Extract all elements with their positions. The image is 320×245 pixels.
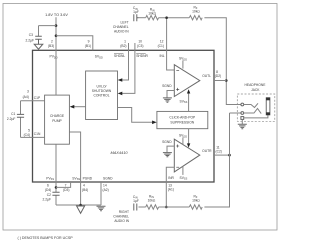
svg-text:(D4): (D4) bbox=[45, 188, 51, 192]
op-amp A1 left channel bbox=[174, 65, 200, 97]
svg-text:MAX4410: MAX4410 bbox=[110, 150, 128, 155]
ground triangle C3 bbox=[34, 44, 43, 49]
svg-text:C1N: C1N bbox=[34, 132, 41, 136]
svg-text:SUPPRESSION: SUPPRESSION bbox=[170, 121, 194, 125]
capacitor C1 2.2uF flying bbox=[20, 101, 22, 138]
svg-text:(B3): (B3) bbox=[48, 44, 54, 48]
click-and-pop suppression block bbox=[157, 111, 208, 128]
svg-text:RIGHT: RIGHT bbox=[119, 210, 129, 214]
wire bbox=[139, 206, 146, 208]
svg-text:JACK: JACK bbox=[251, 88, 260, 92]
svg-text:PUMP: PUMP bbox=[52, 119, 62, 123]
svg-text:(B2): (B2) bbox=[120, 44, 126, 48]
svg-text:SGND: SGND bbox=[162, 84, 172, 88]
capacitor C2 2.2uF bbox=[52, 192, 59, 195]
svg-text:CHANNEL: CHANNEL bbox=[113, 25, 129, 29]
svg-text:CHANNEL: CHANNEL bbox=[113, 215, 129, 219]
svg-text:HEADPHONE: HEADPHONE bbox=[245, 83, 267, 87]
wire clickpop to op-amp2 with arrow bbox=[188, 129, 190, 145]
wire OUTL pin 8 bbox=[214, 80, 226, 82]
wire SHDNL into UVLO bbox=[122, 50, 129, 80]
wire op-amp1 + input to SGND bbox=[167, 91, 174, 98]
svg-text:4: 4 bbox=[83, 184, 85, 188]
capacitor CIN right bbox=[134, 204, 137, 211]
svg-text:(C1): (C1) bbox=[158, 44, 164, 48]
svg-text:9: 9 bbox=[88, 40, 90, 44]
wire feedback corner to OUTL bbox=[204, 18, 241, 105]
pin 1 (B2) SHDNL stub bbox=[128, 43, 130, 50]
pin 5 (C4) C1N bbox=[21, 136, 45, 138]
jack ground bbox=[241, 119, 243, 124]
svg-text:1.8V TO 3.6V: 1.8V TO 3.6V bbox=[45, 13, 68, 17]
capacitor CIN left bbox=[134, 14, 139, 21]
svg-text:10kΩ: 10kΩ bbox=[148, 198, 156, 202]
pin 7 (D3) SVSS tie bbox=[56, 182, 71, 187]
svg-text:(A2): (A2) bbox=[103, 188, 109, 192]
svg-text:2.2µF: 2.2µF bbox=[26, 39, 35, 43]
wire PVDD down into charge pump bbox=[55, 50, 57, 95]
svg-text:10: 10 bbox=[138, 40, 142, 44]
charge pump block bbox=[45, 95, 70, 144]
svg-text:(A4): (A4) bbox=[23, 95, 29, 99]
ground bus bbox=[56, 204, 101, 206]
pin 12 (C1) INL wire from input node down into IC bbox=[167, 18, 175, 70]
svg-text:CHARGE: CHARGE bbox=[50, 114, 65, 118]
svg-text:(C2): (C2) bbox=[216, 149, 222, 153]
svg-text:10kΩ: 10kΩ bbox=[148, 12, 156, 16]
svg-text:(B4): (B4) bbox=[82, 188, 88, 192]
svg-text:LEFT: LEFT bbox=[121, 21, 129, 25]
wire to C3 bbox=[39, 26, 57, 36]
svg-text:(D3): (D3) bbox=[63, 188, 69, 192]
svg-text:6: 6 bbox=[47, 184, 49, 188]
wire OUTR pin 11 bbox=[214, 154, 230, 156]
svg-text:12: 12 bbox=[160, 40, 164, 44]
resistor RF left 10k bbox=[189, 16, 202, 20]
node junction supply-C3 bbox=[55, 24, 58, 27]
svg-text:(C4): (C4) bbox=[24, 133, 30, 137]
svg-text:SGND: SGND bbox=[162, 140, 172, 144]
svg-text:OUTL: OUTL bbox=[202, 74, 211, 78]
svg-text:10kΩ: 10kΩ bbox=[192, 198, 200, 202]
jack ring terminal bbox=[241, 112, 244, 115]
svg-text:INR: INR bbox=[168, 176, 174, 180]
capacitor C3 2.2uF bbox=[35, 36, 42, 44]
wire bbox=[139, 17, 146, 19]
svg-text:AUDIO IN: AUDIO IN bbox=[114, 219, 129, 223]
node junction supply-SVDD bbox=[55, 34, 58, 37]
node junction OUTL bbox=[225, 79, 228, 82]
wire SHDNR into UVLO bbox=[122, 50, 135, 93]
svg-text:5: 5 bbox=[28, 128, 30, 132]
svg-text:2.2µF: 2.2µF bbox=[43, 198, 52, 202]
op-amp A2 right channel bbox=[174, 139, 200, 172]
resistor RIN right 10k bbox=[146, 205, 159, 209]
wire input node to RF bbox=[159, 17, 190, 19]
ground triangle PGND bbox=[77, 206, 85, 213]
pin 3 (A4) C1P bbox=[21, 100, 45, 102]
svg-text:2.2µF: 2.2µF bbox=[7, 117, 16, 121]
wire clickpop to op-amp1 with arrow bbox=[188, 93, 190, 112]
svg-text:10kΩ: 10kΩ bbox=[192, 9, 200, 13]
wire bbox=[159, 206, 190, 208]
svg-text:UVLO/: UVLO/ bbox=[97, 85, 107, 89]
pin 13 (A1) INR wire bbox=[166, 167, 174, 207]
pin 10 (C3) SHDNR stub bbox=[134, 43, 136, 50]
svg-text:INL: INL bbox=[160, 54, 165, 58]
headphone jack dashed box bbox=[237, 94, 274, 121]
svg-text:OUTR: OUTR bbox=[202, 149, 212, 153]
wire supply to SVDD pin 9 bbox=[56, 36, 93, 51]
svg-text:C3: C3 bbox=[29, 33, 33, 37]
ground signal SGND bbox=[97, 206, 106, 211]
wire charge pump to PVSS pin bbox=[55, 144, 57, 182]
node junction INR bbox=[165, 206, 168, 209]
jack plug bbox=[266, 98, 270, 115]
svg-text:2: 2 bbox=[51, 40, 53, 44]
wire jack ring down through OUTR node to bottom feedback bbox=[204, 113, 241, 207]
resistor RIN left 10k bbox=[146, 16, 159, 20]
ground signal op-amp2 bbox=[163, 153, 172, 157]
svg-text:1: 1 bbox=[124, 40, 126, 44]
svg-text:SHDNL: SHDNL bbox=[114, 54, 125, 58]
wire op-amp2 + input to SGND bbox=[167, 146, 174, 152]
wire charge pump to PGND bbox=[69, 132, 80, 182]
jack tip terminal bbox=[241, 103, 244, 106]
jack sleeve terminal bbox=[241, 117, 244, 120]
svg-text:(B1): (B1) bbox=[85, 44, 91, 48]
svg-text:1µF: 1µF bbox=[133, 10, 139, 14]
svg-text:14: 14 bbox=[103, 184, 107, 188]
svg-text:CLICK-AND-POP: CLICK-AND-POP bbox=[169, 116, 196, 120]
svg-text:SGND: SGND bbox=[103, 176, 113, 180]
svg-text:3: 3 bbox=[27, 90, 29, 94]
pin 4 (B4) PGND bbox=[80, 182, 82, 205]
svg-text:( ) DENOTES BUMPS FOR UCSP: ( ) DENOTES BUMPS FOR UCSP bbox=[18, 236, 74, 240]
bottom pin 6 (D4) PVSS with C2 bbox=[55, 182, 57, 205]
svg-text:C1: C1 bbox=[11, 112, 15, 116]
node junction INL bbox=[165, 16, 168, 19]
ground signal op-amp1 bbox=[163, 98, 172, 102]
svg-text:7: 7 bbox=[65, 184, 67, 188]
wire supply to PVDD bbox=[55, 17, 57, 50]
svg-text:C1P: C1P bbox=[34, 96, 41, 100]
UVLO shutdown control block bbox=[86, 71, 118, 120]
svg-text:PGND: PGND bbox=[83, 176, 93, 180]
svg-text:(A1): (A1) bbox=[168, 188, 174, 192]
svg-text:C2: C2 bbox=[47, 193, 51, 197]
svg-text:(D2): (D2) bbox=[215, 74, 221, 78]
pin 14 (A2) SGND bbox=[100, 182, 102, 205]
svg-text:(C3): (C3) bbox=[137, 44, 143, 48]
wire UVLO to charge pump with arrow bbox=[74, 106, 86, 108]
svg-text:AUDIO IN: AUDIO IN bbox=[114, 30, 129, 34]
svg-text:CONTROL: CONTROL bbox=[93, 94, 109, 98]
resistor RF right 10k bbox=[189, 205, 202, 209]
svg-text:1µF: 1µF bbox=[133, 199, 139, 203]
svg-text:SHDNR: SHDNR bbox=[136, 54, 148, 58]
svg-text:SHUTDOWN: SHUTDOWN bbox=[92, 89, 112, 93]
wire UVLO to click-and-pop with arrow bbox=[118, 108, 154, 123]
IC U1 MAX4410 outline bbox=[33, 50, 215, 182]
